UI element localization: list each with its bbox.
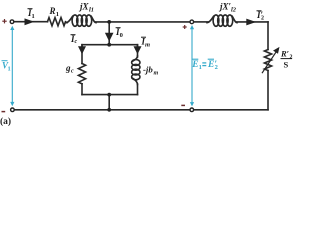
current arrow Ic [78,46,86,54]
terminal top left [10,20,14,24]
svg-text:R: R [49,6,56,16]
wire bm branch upper [137,45,139,57]
svg-text:R′: R′ [280,49,289,59]
svg-text:c: c [71,69,74,75]
wire top left segment [15,21,48,23]
label R'2 over S [280,49,293,70]
wire right vertical upper [267,22,269,50]
svg-text:-jb: -jb [143,64,153,74]
wire R1 to L1 [66,22,68,24]
svg-text:E: E [191,60,198,70]
svg-text:S: S [284,60,289,70]
svg-text:1: 1 [8,66,11,73]
terminal node A bottom [190,108,194,112]
svg-text:1: 1 [56,11,59,18]
wire bm branch lower [137,84,139,95]
label -jbm [143,64,159,76]
label gc [65,63,74,75]
junction node bottom wire [107,108,111,112]
voltage arrow E1 [190,25,194,106]
label I0 [115,27,123,39]
svg-text:m: m [145,42,150,49]
resistor R'2/S [264,50,271,71]
polarity + mid [183,25,187,29]
svg-text:m: m [154,70,159,76]
current arrow I0 [105,33,114,42]
wire L2 to right corner [237,21,269,23]
svg-text:1: 1 [199,64,202,71]
inductor jXl1 [66,15,96,26]
junction node top [107,20,111,24]
svg-text:2: 2 [290,55,293,61]
wire shunt bottom bar [82,94,138,96]
svg-text:0: 0 [120,32,123,39]
junction node mid bar [107,43,111,47]
terminal node A top [190,20,194,24]
label Ic [70,34,78,45]
current arrow I1 [25,18,35,25]
label jXl1 [78,2,94,14]
inductor -jbm [132,56,140,85]
svg-text:2: 2 [215,64,218,71]
svg-text:jX: jX [78,2,90,12]
wire gc branch upper [81,45,83,64]
svg-text:l1: l1 [89,7,94,14]
variable resistor arrow R'2/S [262,48,279,73]
terminal bottom left [11,108,15,112]
label I'2 [256,10,264,22]
label jX'l2 [218,2,237,14]
polarity + left [2,19,6,23]
junction node bottom bar [107,93,111,97]
inductor jX'l2 [207,15,237,26]
wire L1 to node A [96,21,190,23]
label E1 = E'2 [191,59,218,71]
wire bottom [15,109,190,111]
svg-text:l2: l2 [231,7,237,14]
wire shunt top bar [82,45,138,46]
label I1 [27,8,35,20]
wire node A circle to L2 [194,21,208,23]
label V1 [2,61,11,73]
wire gc branch lower [81,84,83,95]
svg-text:1: 1 [32,13,35,20]
svg-text:jX′: jX′ [218,2,232,12]
wire shunt stem top [108,22,110,45]
voltage arrow V1 [10,26,14,107]
wire right vertical lower [267,71,269,110]
wire shunt stem bottom [108,95,110,110]
conductance gc [78,64,85,84]
polarity - left [2,111,6,113]
polarity - mid [181,104,185,106]
resistor R1 [48,18,66,26]
label R1 [49,6,60,18]
svg-text:c: c [75,39,78,45]
current arrow Im [134,46,142,54]
label Im [141,37,151,49]
svg-text:2: 2 [261,16,264,22]
current arrow I'2 [246,19,256,26]
svg-text:(a): (a) [0,116,11,127]
